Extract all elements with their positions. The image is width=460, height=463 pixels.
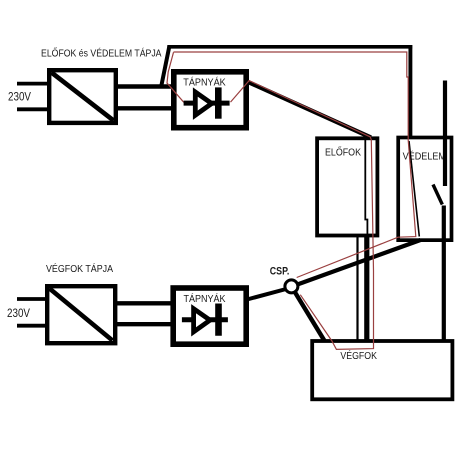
svg-text:ELŐFOK és VÉDELEM TÁPJA: ELŐFOK és VÉDELEM TÁPJA <box>41 45 162 59</box>
wire: diagonal TÁPNYÁK1 to ELŐFOK box <box>247 82 371 138</box>
wire: steep riser from T1 top output up to top bus <box>161 47 169 87</box>
node CSP circle <box>285 280 298 293</box>
wire: right vertical drop of top bus to VÉDELEM <box>408 45 412 139</box>
svg-text:TÁPNYÁK: TÁPNYÁK <box>184 292 226 305</box>
diode D1 cathode bar <box>215 87 222 118</box>
supply board TÁPNYÁK1 box <box>174 72 246 128</box>
wire: 230V bottom input line L (bottom transformer) <box>17 297 47 301</box>
VÉGFOK box <box>312 341 452 399</box>
wire: ELŐFOK output down to VÉGFOK (thin) <box>356 236 358 342</box>
transformer T2 (végfok supply) box <box>47 286 115 343</box>
wire: T2 output bottom to TÁPNYÁK2 <box>114 322 174 326</box>
transformer T1 (előfok/védelem supply) box <box>49 70 116 123</box>
wire: T1 output top to TÁPNYÁK1 <box>116 84 174 88</box>
svg-text:CSP.: CSP. <box>270 265 290 277</box>
svg-text:230V: 230V <box>8 92 31 104</box>
wire: 230V bottom input line N (bottom transformer) <box>17 324 47 328</box>
svg-text:TÁPNYÁK: TÁPNYÁK <box>183 75 226 88</box>
wire: T2 output top to TÁPNYÁK2 <box>114 301 174 305</box>
diode D2 cathode bar <box>215 304 222 336</box>
VÉDELEM box <box>398 138 451 241</box>
svg-text:230V: 230V <box>7 308 30 320</box>
svg-text:VÉGFOK TÁPJA: VÉGFOK TÁPJA <box>46 262 113 275</box>
ELŐFOK box <box>317 138 377 235</box>
wire: 230V top input line L (top transformer) <box>17 82 49 86</box>
red trace: csp to végfok to előfok riser to diagonal back to tápnyák1 <box>231 81 374 350</box>
red trace: tápnyák1 diode anode back up to top bus <box>167 52 184 102</box>
svg-text:ELŐFOK: ELŐFOK <box>325 144 361 158</box>
diode D1 triangle <box>195 92 211 115</box>
supply board TÁPNYÁK2 box <box>173 288 246 344</box>
svg-text:VÉGFOK: VÉGFOK <box>340 349 377 362</box>
wire: top horizontal bus <box>167 45 412 49</box>
diode D2 lead <box>182 317 228 322</box>
wire: right vertical wire upper part (to switch) <box>443 81 447 187</box>
transformer T1 diagonal <box>52 73 114 121</box>
wire: CSP node to VÉGFOK top-left <box>295 292 325 341</box>
wire: T1 output bottom to TÁPNYÁK1 <box>116 106 174 110</box>
diode D1 lead <box>184 101 230 106</box>
diode D2 triangle <box>194 309 210 332</box>
wire: right vertical wire lower part down to VÉGFOK <box>442 206 446 342</box>
transformer T2 diagonal <box>50 289 113 341</box>
wire: CSP node to VÉDELEM bottom <box>296 240 421 285</box>
wire: thin pass-through inside ELŐFOK <box>365 140 367 238</box>
wire: supply feed down to VÉGFOK (thick) <box>364 236 369 342</box>
wire: 230V top input line N (top transformer) <box>17 107 49 111</box>
switch contact (open) in VÉDELEM <box>433 185 442 205</box>
wire: thin link inside VÉDELEM (top feed to bottom-left) <box>409 141 419 237</box>
wire: TÁPNYÁK2 to CSP node <box>247 289 288 300</box>
red trace: top bus / védelem / csp loop <box>174 52 416 278</box>
